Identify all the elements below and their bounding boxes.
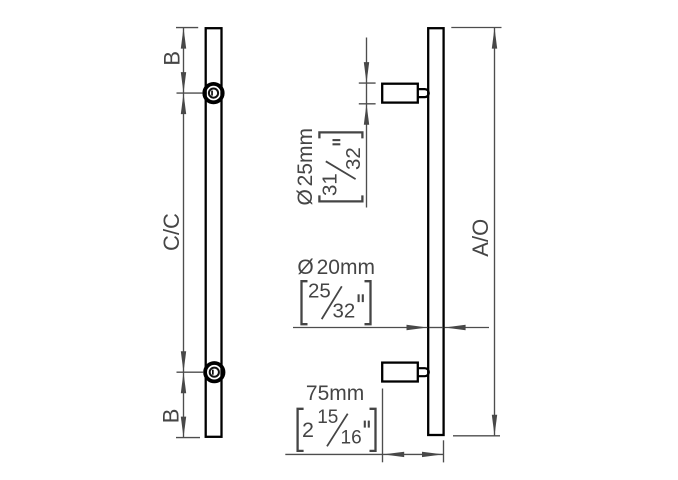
arrow up below top fastener [181,93,186,114]
arrow right to bar left edge [407,325,428,330]
label B bottom [159,409,184,424]
bracket left [302,281,308,324]
75mm label [298,382,376,451]
svg-text:31: 31 [319,173,342,196]
fastener bottom (screw head) [205,363,223,381]
neck bottom [418,368,429,376]
A/O top tick [451,27,501,29]
arrow down at bottom [181,417,186,438]
svg-text:20mm: 20mm [317,256,375,279]
svg-text:16: 16 [341,428,362,449]
extension line left (from standoff) [382,389,384,463]
dia-25 tick bottom [359,103,376,105]
A/O dimension lines [451,28,501,436]
dimension vline B/C-C/B [183,28,185,438]
left dimension ticks and line [176,28,203,438]
dia-20 line through bar [429,327,443,329]
arrow left to bar right edge [445,325,466,330]
bracket left [298,409,304,451]
extension line right (from bar) [443,440,445,462]
arrow down at bottom fastener [181,351,186,372]
inch marks [358,294,360,302]
label B top [160,51,185,66]
bracket right [370,409,376,451]
bracket right [319,132,362,138]
dia-25 tick top [359,82,376,84]
dia-20 dimension lines [293,327,489,329]
svg-text:2: 2 [302,418,314,442]
arrow up below bottom fastener [181,372,186,393]
fastener top (screw head) [204,84,222,102]
dia-25 vline [366,38,368,208]
label A/O (rotated) [468,219,493,257]
75mm dim line [285,453,443,455]
arrow left to standoff line [383,452,404,457]
neck top [418,89,429,97]
A/O arrows [492,28,497,436]
bracket right [365,281,371,324]
A/O bottom tick [453,435,500,437]
svg-text:75mm: 75mm [306,382,364,405]
handle bar (side view) [428,28,443,435]
dia-25 dimension lines [359,38,376,208]
dia-20 label [297,256,375,324]
dia-25 arrows [364,62,369,125]
inch marks [364,421,366,428]
dia-20 arrows [407,325,466,330]
arrow up at top [492,28,497,49]
inch marks [333,143,341,145]
arrow down to standoff top [364,62,369,83]
svg-text:25: 25 [308,280,331,303]
tick at top fastener [177,92,203,94]
svg-text:32: 32 [333,300,356,323]
label C/C [159,213,184,251]
arrow right to bar line [422,452,443,457]
arrow down at top fastener [181,72,186,93]
handle bar (front view) [206,28,222,437]
svg-text:B: B [160,51,185,66]
svg-text:C/C: C/C [159,213,184,251]
svg-text:A/O: A/O [468,219,493,257]
svg-text:25mm: 25mm [294,128,317,186]
75mm dimension lines [285,389,443,463]
arrow up at top [181,28,186,49]
tick top [176,27,198,29]
dia-25 label (rotated) [294,128,365,206]
svg-text:Ø: Ø [297,256,313,279]
A/O vline [494,28,496,436]
standoff top [382,84,418,103]
bracket left [319,195,362,201]
standoff bottom [382,363,418,382]
75mm arrows [383,452,443,457]
dia-20 line right [445,327,489,329]
dia-20 line left [293,327,428,329]
svg-text:15: 15 [317,407,338,428]
tick at bottom fastener [177,371,204,373]
arrow down at bottom [492,415,497,436]
svg-text:32: 32 [342,147,365,170]
arrows of left dimension [181,28,186,438]
arrow up to standoff bottom [364,104,369,125]
svg-text:Ø: Ø [294,189,317,205]
svg-text:B: B [159,409,184,424]
tick bottom [176,437,200,439]
